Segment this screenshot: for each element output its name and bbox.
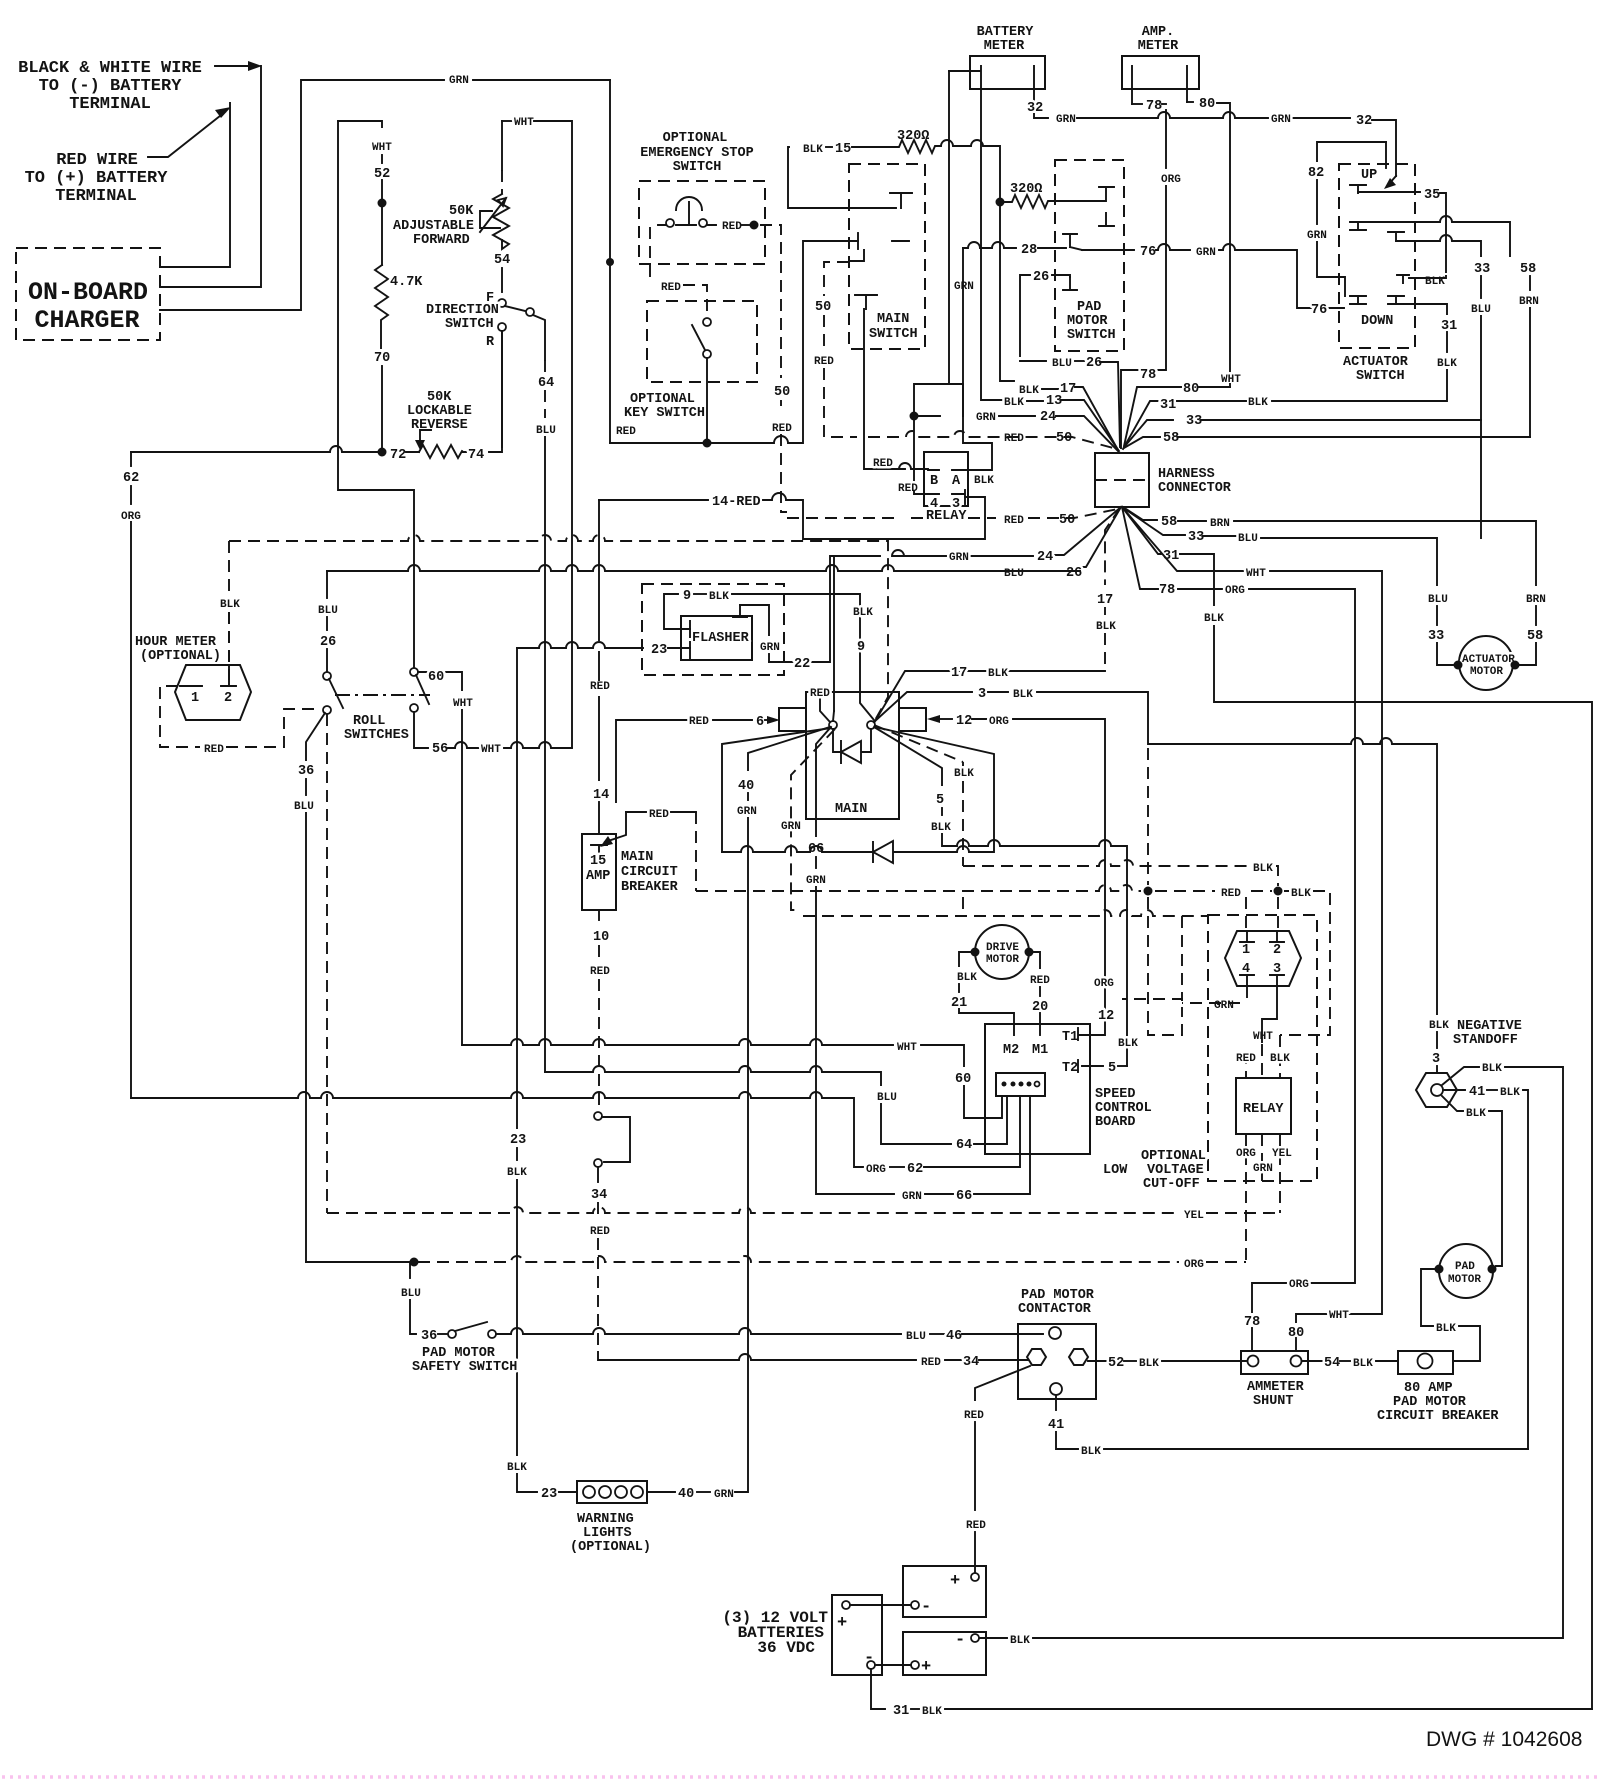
svg-text:35: 35 bbox=[1424, 188, 1440, 203]
svg-text:BRN: BRN bbox=[1519, 296, 1539, 308]
wire GRN 32 line to actuator UP bbox=[1077, 112, 1350, 118]
dashed BLK down to hour meter pin 2 bbox=[228, 612, 230, 665]
svg-text:B: B bbox=[930, 474, 938, 489]
svg-text:SWITCH: SWITCH bbox=[869, 327, 918, 342]
svg-text:BLK: BLK bbox=[1429, 1020, 1449, 1032]
direction switch bbox=[426, 291, 545, 447]
potentiometer 50K lockable reverse bbox=[407, 390, 472, 458]
svg-text:76: 76 bbox=[1140, 245, 1156, 260]
svg-text:BLK: BLK bbox=[1118, 1038, 1138, 1050]
dashed BLK into cutoff box bbox=[962, 897, 964, 916]
svg-text:WHT: WHT bbox=[453, 698, 473, 710]
wire 17 BLK dashed harness to coil bbox=[1105, 508, 1120, 585]
svg-text:BLK: BLK bbox=[1248, 397, 1268, 409]
svg-text:ADJUSTABLE: ADJUSTABLE bbox=[393, 219, 474, 234]
wire RED 20 drive motor to M1 bbox=[1029, 952, 1040, 968]
svg-text:5: 5 bbox=[1108, 1061, 1116, 1076]
svg-text:58: 58 bbox=[1527, 629, 1543, 644]
svg-text:LOCKABLE: LOCKABLE bbox=[407, 404, 472, 419]
wire 23 line to flasher bbox=[517, 642, 643, 648]
svg-text:GRN: GRN bbox=[1056, 114, 1076, 126]
svg-text:SWITCH: SWITCH bbox=[445, 317, 494, 332]
wire battery meter internal drop bbox=[914, 71, 949, 412]
svg-text:WHT: WHT bbox=[481, 744, 501, 756]
svg-text:82: 82 bbox=[1308, 166, 1324, 181]
svg-text:78: 78 bbox=[1140, 368, 1156, 383]
svg-text:(OPTIONAL): (OPTIONAL) bbox=[570, 1540, 651, 1555]
svg-text:BLK: BLK bbox=[1437, 358, 1457, 370]
junction dot 52 bbox=[378, 199, 387, 208]
svg-text:WHT: WHT bbox=[514, 117, 534, 129]
on-board charger dashed box bbox=[16, 248, 160, 340]
svg-text:GRN: GRN bbox=[1253, 1163, 1273, 1175]
svg-text:CONNECTOR: CONNECTOR bbox=[1158, 481, 1232, 496]
svg-text:17: 17 bbox=[1060, 382, 1076, 397]
svg-text:BLK: BLK bbox=[1436, 1323, 1456, 1335]
svg-text:BLK: BLK bbox=[507, 1462, 527, 1474]
svg-text:BLK: BLK bbox=[931, 822, 951, 834]
svg-text:CUT-OFF: CUT-OFF bbox=[1143, 1177, 1200, 1192]
svg-text:50: 50 bbox=[815, 300, 831, 315]
ammeter shunt bbox=[1241, 1351, 1308, 1409]
wire 35 from UP contact bbox=[1358, 191, 1420, 193]
svg-text:RED: RED bbox=[590, 966, 610, 978]
UP contact bbox=[1350, 185, 1366, 193]
low voltage cutoff dashed box bbox=[1103, 915, 1317, 1192]
svg-text:AMP: AMP bbox=[586, 869, 610, 884]
svg-text:ORG: ORG bbox=[1236, 1148, 1256, 1160]
wire 12 ORG from MAIN to speed board T1 bbox=[927, 715, 940, 723]
svg-text:ORG: ORG bbox=[1225, 585, 1245, 597]
svg-text:-: - bbox=[955, 1631, 965, 1650]
dashed GRN from left coil to cutoff bbox=[791, 729, 835, 910]
svg-text:MAIN: MAIN bbox=[621, 850, 653, 865]
wire 80 WHT to actuator bbox=[1122, 507, 1243, 571]
svg-text:MOTOR: MOTOR bbox=[1067, 314, 1108, 329]
diode on 855 line bbox=[873, 727, 994, 863]
svg-text:DRIVE: DRIVE bbox=[986, 942, 1019, 954]
svg-text:BLK: BLK bbox=[853, 607, 873, 619]
svg-text:PAD MOTOR: PAD MOTOR bbox=[422, 1346, 496, 1361]
svg-text:STANDOFF: STANDOFF bbox=[1453, 1033, 1518, 1048]
svg-text:BLK: BLK bbox=[1270, 1053, 1290, 1065]
svg-text:DWG # 1042608: DWG # 1042608 bbox=[1426, 1728, 1582, 1751]
svg-text:CIRCUIT BREAKER: CIRCUIT BREAKER bbox=[1377, 1409, 1499, 1424]
dashed wire BLK from hour meter across bbox=[229, 535, 888, 722]
wire 58 row: contact to right vertical bbox=[1358, 216, 1510, 256]
wire 26 BLU harness to main area bbox=[1083, 507, 1121, 567]
svg-text:23: 23 bbox=[510, 1133, 526, 1148]
svg-text:13: 13 bbox=[1046, 394, 1062, 409]
svg-text:17: 17 bbox=[951, 666, 967, 681]
svg-text:RED: RED bbox=[1004, 433, 1024, 445]
wire T2 5 BLK bbox=[1082, 1065, 1103, 1067]
svg-text:33: 33 bbox=[1188, 530, 1204, 545]
wire 41 contactor bottom bbox=[1055, 1395, 1057, 1410]
svg-text:A: A bbox=[952, 474, 961, 489]
svg-text:BLK: BLK bbox=[709, 591, 729, 603]
svg-text:RED: RED bbox=[590, 681, 610, 693]
svg-text:WHT: WHT bbox=[1221, 374, 1241, 386]
svg-text:BLU: BLU bbox=[877, 1092, 897, 1104]
svg-text:BLU: BLU bbox=[401, 1288, 421, 1300]
svg-text:SAFETY SWITCH: SAFETY SWITCH bbox=[412, 1360, 517, 1375]
svg-text:BREAKER: BREAKER bbox=[621, 880, 679, 895]
svg-text:70: 70 bbox=[374, 351, 390, 366]
svg-text:33: 33 bbox=[1474, 262, 1490, 277]
wire 80 WHT from amp meter bbox=[1187, 101, 1193, 103]
wire 28 line to pad motor switch bbox=[963, 242, 1016, 248]
svg-text:46: 46 bbox=[946, 1329, 962, 1344]
svg-text:BRN: BRN bbox=[1526, 594, 1546, 606]
wire 33 fan line to BLU vertical bbox=[1125, 420, 1173, 446]
svg-text:WHT: WHT bbox=[1253, 1031, 1273, 1043]
svg-text:HOUR METER: HOUR METER bbox=[135, 635, 217, 650]
svg-text:BLK: BLK bbox=[1139, 1358, 1159, 1370]
svg-text:BLU: BLU bbox=[1471, 304, 1491, 316]
dashed ORG bus bbox=[306, 1261, 410, 1263]
svg-text:BLU: BLU bbox=[1052, 358, 1072, 370]
wire pad motor minus to 80A breaker bbox=[1421, 1269, 1439, 1326]
svg-text:BLK: BLK bbox=[954, 768, 974, 780]
svg-text:PAD: PAD bbox=[1455, 1261, 1475, 1273]
pad motor switch bbox=[1055, 160, 1124, 351]
wire 72-74 reverse pot line bbox=[131, 446, 378, 452]
wire GRN-24 junction to relay pin 4 bbox=[910, 412, 919, 421]
svg-text:33: 33 bbox=[1186, 414, 1202, 429]
svg-text:ORG: ORG bbox=[1161, 174, 1181, 186]
svg-text:64: 64 bbox=[956, 1138, 972, 1153]
svg-text:24: 24 bbox=[1037, 550, 1053, 565]
svg-text:UP: UP bbox=[1361, 168, 1377, 183]
svg-text:50: 50 bbox=[1059, 513, 1075, 528]
svg-text:15: 15 bbox=[835, 142, 851, 157]
svg-text:RED: RED bbox=[964, 1410, 984, 1422]
svg-text:RED: RED bbox=[689, 716, 709, 728]
svg-text:TERMINAL: TERMINAL bbox=[55, 187, 137, 206]
svg-text:T2: T2 bbox=[1062, 1061, 1078, 1076]
wire standoff lower BLK to pad motor bbox=[1442, 1096, 1463, 1111]
wire ES left to key switch bbox=[649, 227, 651, 280]
svg-text:26: 26 bbox=[1066, 566, 1082, 581]
svg-text:58: 58 bbox=[1163, 431, 1179, 446]
wire 855-line from left coil bbox=[722, 728, 831, 852]
wire 40 GRN from warning lights to vertical bbox=[647, 1491, 675, 1493]
wire 76 GRN from pad switch to actuator bbox=[1082, 249, 1134, 251]
svg-text:SWITCH: SWITCH bbox=[1067, 328, 1116, 343]
wire 14-RED from main circuit breaker top to relay pin3 bbox=[599, 499, 708, 501]
svg-text:80 AMP: 80 AMP bbox=[1404, 1381, 1453, 1396]
svg-text:R: R bbox=[486, 335, 495, 350]
svg-text:12: 12 bbox=[956, 714, 972, 729]
svg-text:ORG: ORG bbox=[1094, 978, 1114, 990]
svg-text:BLK: BLK bbox=[803, 144, 823, 156]
svg-text:GRN: GRN bbox=[949, 552, 969, 564]
svg-text:22: 22 bbox=[794, 657, 810, 672]
svg-text:SWITCH: SWITCH bbox=[1356, 369, 1405, 384]
pad motor contactor bbox=[1018, 1288, 1096, 1399]
svg-text:PAD MOTOR: PAD MOTOR bbox=[1393, 1395, 1467, 1410]
battery 3 bbox=[903, 1632, 986, 1675]
svg-text:50K: 50K bbox=[449, 204, 474, 219]
wire 78 ORG from amp meter to harness bbox=[1132, 103, 1142, 105]
relay wires bottom bbox=[1245, 1134, 1247, 1262]
svg-text:RED: RED bbox=[814, 356, 834, 368]
svg-text:LOW: LOW bbox=[1103, 1163, 1128, 1178]
decorative dotted strip bbox=[2, 1775, 1598, 1779]
wire pin 3 to relay WHT bbox=[1262, 986, 1277, 1042]
svg-text:62: 62 bbox=[123, 471, 139, 486]
wire 6 RED from breaker to MAIN coil box bbox=[616, 720, 688, 802]
svg-text:BOARD: BOARD bbox=[1095, 1115, 1136, 1130]
svg-text:AMP.: AMP. bbox=[1142, 25, 1174, 40]
svg-text:9: 9 bbox=[683, 589, 691, 604]
svg-text:YEL: YEL bbox=[1184, 1210, 1204, 1222]
drive motor bbox=[971, 925, 1034, 979]
resistor 4.7K bbox=[375, 265, 388, 348]
svg-text:GRN: GRN bbox=[976, 412, 996, 424]
svg-text:CHARGER: CHARGER bbox=[34, 306, 139, 335]
svg-text:BLU: BLU bbox=[906, 1331, 926, 1343]
wire 62 ORG from lockable reverse to hour-meter line bbox=[130, 452, 132, 466]
wire 31 BLK from down contact to harness bbox=[1404, 304, 1447, 314]
harness connector bbox=[1095, 453, 1232, 507]
wire 52 BLK contactor to shunt bbox=[1088, 1360, 1106, 1362]
dashed BLK sense line to cutoff bbox=[963, 860, 1249, 866]
svg-text:41: 41 bbox=[1469, 1085, 1485, 1100]
svg-text:RED: RED bbox=[616, 426, 636, 438]
svg-text:BLK: BLK bbox=[1004, 397, 1024, 409]
svg-text:RED: RED bbox=[810, 688, 830, 700]
wire charger to (+) terminal arrow bbox=[160, 103, 230, 267]
flasher optional dashed box bbox=[642, 584, 784, 675]
svg-text:10: 10 bbox=[593, 930, 609, 945]
svg-text:72: 72 bbox=[390, 448, 406, 463]
svg-text:NEGATIVE: NEGATIVE bbox=[1457, 1019, 1522, 1034]
down row contacts bbox=[1350, 296, 1366, 304]
svg-text:RED: RED bbox=[966, 1520, 986, 1532]
svg-text:BLK: BLK bbox=[922, 1706, 942, 1718]
dashed 26 BLU below roll switch 1 bbox=[326, 714, 328, 1213]
wire relay pin A BLK up bbox=[963, 418, 992, 470]
svg-text:2: 2 bbox=[1273, 943, 1281, 958]
svg-text:RED WIRE: RED WIRE bbox=[56, 151, 138, 170]
svg-text:50K: 50K bbox=[427, 390, 452, 405]
svg-text:+: + bbox=[837, 1614, 847, 1633]
svg-text:RED: RED bbox=[661, 282, 681, 294]
dashed low-voltage sense lines bbox=[696, 885, 1141, 891]
svg-text:14-RED: 14-RED bbox=[712, 495, 761, 510]
svg-text:ORG: ORG bbox=[989, 716, 1009, 728]
svg-text:BLK: BLK bbox=[1482, 1063, 1502, 1075]
wire 40 GRN from left coil to warning lights bbox=[748, 727, 830, 770]
svg-text:40: 40 bbox=[738, 779, 754, 794]
svg-text:BRN: BRN bbox=[1210, 518, 1230, 530]
svg-text:OPTIONAL: OPTIONAL bbox=[630, 392, 695, 407]
svg-text:+: + bbox=[921, 1658, 931, 1677]
wire BLU 26 roll switch vertical bbox=[326, 571, 328, 598]
svg-text:AMMETER: AMMETER bbox=[1247, 1380, 1305, 1395]
batteries bbox=[722, 1566, 986, 1677]
wire from WHT loop down to roll switch 2 bbox=[338, 121, 414, 668]
svg-text:5: 5 bbox=[936, 793, 944, 808]
UP blade and arrow bbox=[1388, 176, 1396, 185]
svg-text:1: 1 bbox=[191, 691, 199, 706]
svg-text:BLU: BLU bbox=[318, 605, 338, 617]
svg-text:CONTACTOR: CONTACTOR bbox=[1018, 1302, 1092, 1317]
svg-text:BLK: BLK bbox=[220, 599, 240, 611]
wire 66 GRN from left coil down bbox=[816, 727, 831, 836]
svg-text:WARNING: WARNING bbox=[577, 1512, 634, 1527]
svg-text:BLK: BLK bbox=[1204, 613, 1224, 625]
svg-text:ORG: ORG bbox=[866, 1164, 886, 1176]
svg-text:YEL: YEL bbox=[1272, 1148, 1292, 1160]
svg-text:MOTOR: MOTOR bbox=[1448, 1274, 1481, 1286]
wire BLK-13 from battery meter to harness fan bbox=[981, 89, 1003, 400]
svg-text:ACTUATOR: ACTUATOR bbox=[1462, 654, 1515, 666]
optional key switch bbox=[624, 301, 757, 421]
wire WHT right branch of upper loop bbox=[502, 120, 512, 122]
svg-text:WHT: WHT bbox=[897, 1042, 917, 1054]
svg-text:WHT: WHT bbox=[372, 142, 392, 154]
svg-text:FORWARD: FORWARD bbox=[413, 233, 470, 248]
svg-text:33: 33 bbox=[1428, 629, 1444, 644]
svg-text:12: 12 bbox=[1098, 1009, 1114, 1024]
speed control board bbox=[985, 1024, 1152, 1154]
wire GRN vertical to key switch line bbox=[609, 80, 611, 443]
wire 23 BLK vertical down to warning lights bbox=[516, 648, 518, 1128]
svg-text:34: 34 bbox=[591, 1188, 607, 1203]
svg-text:ROLL: ROLL bbox=[353, 714, 385, 729]
optional emergency stop switch bbox=[639, 131, 765, 264]
junction dot 70/72 bbox=[378, 448, 387, 457]
svg-text:GRN: GRN bbox=[1271, 114, 1291, 126]
wire GRN-24 to harness fan bbox=[914, 415, 940, 417]
svg-text:2: 2 bbox=[224, 691, 232, 706]
cutoff relay bbox=[1236, 1078, 1291, 1134]
coil terminals bbox=[829, 721, 837, 729]
svg-text:50: 50 bbox=[1056, 431, 1072, 446]
wire 82 GRN box from 32 corner bbox=[1317, 142, 1386, 161]
wire charger GRN to battery meter bbox=[160, 80, 444, 310]
actuator switch bbox=[1339, 164, 1415, 384]
wire standoff 41 BLK to pad motor breaker line bbox=[1443, 1089, 1465, 1091]
svg-text:RELAY: RELAY bbox=[1243, 1102, 1284, 1117]
wire 3 BLK from right coil to negative standoff bbox=[874, 692, 972, 722]
svg-text:BLK: BLK bbox=[1081, 1446, 1101, 1458]
svg-text:GRN: GRN bbox=[1196, 247, 1216, 259]
svg-text:BLK: BLK bbox=[1353, 1358, 1373, 1370]
svg-text:-: - bbox=[921, 1598, 931, 1617]
coil diode bbox=[833, 729, 871, 763]
wire main 855 line with diode bbox=[722, 846, 873, 852]
relay wires top bbox=[1245, 897, 1247, 1078]
svg-text:36 VDC: 36 VDC bbox=[757, 1639, 815, 1657]
svg-text:BLU: BLU bbox=[294, 801, 314, 813]
svg-text:CIRCUIT: CIRCUIT bbox=[621, 865, 678, 880]
svg-text:ACTUATOR: ACTUATOR bbox=[1343, 355, 1409, 370]
svg-text:GRN: GRN bbox=[449, 75, 469, 87]
wire 56 WHT from roll switch 2 lower bbox=[414, 712, 428, 748]
wire standoff BLK upper right to battery bbox=[1442, 1067, 1479, 1085]
svg-text:78: 78 bbox=[1159, 583, 1175, 598]
potentiometer 50K adjustable forward bbox=[393, 121, 509, 249]
svg-text:TERMINAL: TERMINAL bbox=[69, 95, 151, 114]
svg-text:RED: RED bbox=[873, 458, 893, 470]
svg-text:GRN: GRN bbox=[1214, 1000, 1234, 1012]
svg-text:GRN: GRN bbox=[760, 642, 780, 654]
svg-text:OPTIONAL: OPTIONAL bbox=[663, 131, 728, 146]
wire RED fan from left coil terminal bbox=[820, 688, 830, 722]
wire 24 GRN harness to coil bbox=[1050, 507, 1121, 555]
svg-text:80: 80 bbox=[1199, 97, 1215, 112]
svg-text:31: 31 bbox=[1160, 398, 1176, 413]
svg-text:SWITCH: SWITCH bbox=[673, 160, 722, 175]
MAIN contactor box bbox=[779, 692, 926, 819]
svg-text:RED: RED bbox=[1004, 515, 1024, 527]
svg-text:FLASHER: FLASHER bbox=[692, 631, 750, 646]
svg-text:BLK: BLK bbox=[974, 475, 994, 487]
svg-text:58: 58 bbox=[1520, 262, 1536, 277]
svg-text:BLK: BLK bbox=[1013, 689, 1033, 701]
svg-text:BLK: BLK bbox=[988, 668, 1008, 680]
wire 64 BLU from direction switch bbox=[544, 360, 546, 372]
interconnect wires bbox=[850, 1604, 911, 1606]
svg-text:GRN: GRN bbox=[806, 875, 826, 887]
svg-text:9: 9 bbox=[857, 640, 865, 655]
svg-text:DIRECTION: DIRECTION bbox=[426, 303, 499, 318]
wire 34 RED to pad motor contactor bbox=[597, 1167, 599, 1182]
svg-text:CONTROL: CONTROL bbox=[1095, 1101, 1152, 1116]
svg-text:DOWN: DOWN bbox=[1361, 314, 1393, 329]
svg-text:MOTOR: MOTOR bbox=[1470, 666, 1503, 678]
wire BLK-17 from 320 junction to harness fan bbox=[1000, 202, 1014, 381]
svg-text:METER: METER bbox=[1138, 39, 1179, 54]
wire 58 fan line to BRN vertical bbox=[1124, 437, 1160, 448]
svg-text:PAD: PAD bbox=[1077, 300, 1101, 315]
svg-text:76: 76 bbox=[1311, 303, 1327, 318]
second row contacts bbox=[1350, 222, 1366, 230]
svg-text:RED: RED bbox=[1236, 1053, 1256, 1065]
roll switch 1 bbox=[323, 672, 430, 743]
svg-text:41: 41 bbox=[1048, 1418, 1064, 1433]
wire key switch down to red line bbox=[706, 358, 708, 443]
svg-text:80: 80 bbox=[1183, 382, 1199, 397]
svg-text:RED: RED bbox=[590, 1226, 610, 1238]
svg-text:64: 64 bbox=[538, 376, 554, 391]
svg-text:VOLTAGE: VOLTAGE bbox=[1147, 1163, 1204, 1178]
svg-text:SHUNT: SHUNT bbox=[1253, 1394, 1294, 1409]
wire 5 BLK from right coil to speed board T2 bbox=[874, 727, 942, 785]
svg-text:31: 31 bbox=[893, 1704, 909, 1719]
wire BLK dashed from right coil to cutoff top bbox=[874, 725, 963, 866]
pad motor safety switch bbox=[401, 1262, 517, 1375]
svg-text:54: 54 bbox=[1324, 1356, 1340, 1371]
svg-text:RED: RED bbox=[204, 744, 224, 756]
wire 58 BRN to actuator motor bbox=[1123, 507, 1157, 520]
svg-text:14: 14 bbox=[593, 788, 609, 803]
roll switch 2 bbox=[410, 668, 429, 712]
svg-text:34: 34 bbox=[963, 1355, 979, 1370]
wire 31 BLK harness to battery minus bbox=[1122, 507, 1196, 554]
svg-text:60: 60 bbox=[428, 670, 444, 685]
svg-text:MAIN: MAIN bbox=[835, 802, 867, 817]
svg-text:SWITCHES: SWITCHES bbox=[344, 728, 409, 743]
wire 26 BLU from pad switch down to harness fan bbox=[1020, 275, 1070, 356]
note: red wire to (+) battery terminal bbox=[25, 151, 169, 206]
wire 60 from roll switch 2 bbox=[418, 672, 462, 690]
svg-text:BLK: BLK bbox=[1500, 1087, 1520, 1099]
